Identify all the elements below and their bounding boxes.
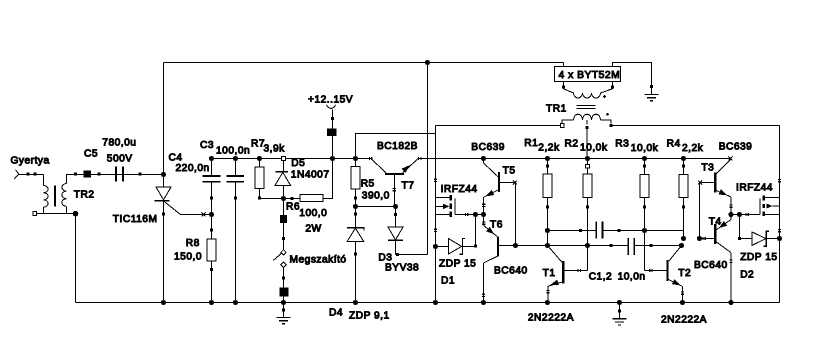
pin square G3 xyxy=(618,309,621,312)
wire BYT52M left top stub xyxy=(563,63,565,68)
svg-text:C4: C4 xyxy=(169,152,183,163)
wire R8 bottom lead xyxy=(211,261,213,302)
wire BYT52M right top stub and run to ground xyxy=(613,63,652,95)
spark plug electrode xyxy=(14,170,43,179)
wire R1 top lead xyxy=(547,159,549,175)
ground G3 (bottom middle) xyxy=(613,319,627,325)
node D5 anode / breaker branch xyxy=(281,196,286,201)
node D4 / ground rail xyxy=(353,300,358,305)
node C3 / ground rail xyxy=(233,300,238,305)
node D1 branch xyxy=(473,212,478,217)
label BC640 right xyxy=(694,260,728,271)
transistor T3 BC639 xyxy=(700,160,732,215)
wire C3 top lead xyxy=(235,159,237,176)
node T5/T6 emitter xyxy=(481,212,486,217)
label IRFZ44 right xyxy=(736,182,773,193)
pin mark T3 base xyxy=(698,181,702,185)
svg-text:D2: D2 xyxy=(740,270,754,281)
node C4 top xyxy=(209,156,214,161)
node R8 / ground rail xyxy=(209,300,214,305)
label C3 xyxy=(200,140,214,151)
svg-text:500V: 500V xyxy=(107,153,133,164)
svg-text:2N2222A: 2N2222A xyxy=(528,312,574,323)
label R7 xyxy=(251,138,265,149)
label BC182B xyxy=(377,141,418,152)
pin mark T5 base xyxy=(513,181,517,185)
pin square breaker xyxy=(282,237,285,240)
pin square R4 top xyxy=(682,165,685,168)
wire R1 bottom lead xyxy=(547,198,549,246)
pin square breaker lower xyxy=(282,277,285,280)
wire T5 base lead xyxy=(500,182,515,184)
node C3 top xyxy=(233,156,238,161)
core TR1 xyxy=(576,106,595,109)
label 10,0k r2 xyxy=(580,143,608,154)
wire TR2 primary bottom xyxy=(66,207,68,214)
resistor R4 xyxy=(679,175,688,198)
wire common column (x=427) xyxy=(427,63,429,255)
inductor TR1 secondary winding xyxy=(562,114,611,124)
wire top rail (common) xyxy=(164,62,564,64)
svg-text:T2: T2 xyxy=(678,268,691,279)
node R3 bottom / wire A / T2 base xyxy=(642,228,647,233)
wire ground rail (bottom) xyxy=(76,302,780,304)
svg-text:BC640: BC640 xyxy=(494,265,528,276)
pin square wire B a xyxy=(610,244,613,247)
label 100,0n xyxy=(216,145,250,156)
pin hash on right spine lower xyxy=(778,230,781,232)
svg-text:R2: R2 xyxy=(565,138,579,149)
label 2,2k r1 xyxy=(538,143,560,154)
core TR2 xyxy=(54,186,56,207)
svg-text:2W: 2W xyxy=(305,223,321,234)
svg-text:D4: D4 xyxy=(329,308,343,319)
diode D3 BYV38 xyxy=(388,227,403,255)
supply terminal arc xyxy=(326,105,336,109)
label R1 xyxy=(524,138,538,149)
label D3 xyxy=(378,252,392,263)
node R2 top / TR1 tap xyxy=(585,156,590,161)
label D1 xyxy=(441,276,455,287)
svg-text:390,0: 390,0 xyxy=(362,190,390,201)
node R4 top xyxy=(681,156,686,161)
thyristor TIC116M xyxy=(155,175,171,303)
svg-text:D5: D5 xyxy=(291,158,305,169)
pin open square R2 top xyxy=(586,164,590,168)
capacitor C3 xyxy=(227,176,245,182)
pin mark gate xyxy=(202,213,206,217)
node breaker / ground rail xyxy=(281,300,286,305)
wire breaker branch upper xyxy=(283,199,285,251)
wire D3 cathode to common column xyxy=(396,254,428,256)
node supply junction xyxy=(330,156,335,161)
wire spark gap to TR2 secondary top xyxy=(43,175,45,186)
svg-text:BC639: BC639 xyxy=(719,141,753,152)
svg-text:10,0k: 10,0k xyxy=(631,143,659,154)
node thyristor gate / C4 / R8 xyxy=(209,212,214,217)
svg-text:BC640: BC640 xyxy=(694,260,728,271)
resistor R6 xyxy=(300,194,323,201)
svg-text:C3: C3 xyxy=(200,140,214,151)
wire ground stem G2 xyxy=(282,303,285,318)
transistor T7 BC182B xyxy=(372,159,418,206)
label T4 xyxy=(709,217,722,228)
svg-text:R8: R8 xyxy=(186,238,200,249)
wire T7 emitter to common column xyxy=(417,158,427,160)
svg-text:2N2222A: 2N2222A xyxy=(661,314,707,325)
transistor IRFZ44 right xyxy=(760,196,780,216)
pin hash T4 base xyxy=(703,237,705,240)
pin square C5 wire c xyxy=(139,173,142,176)
label TR2 xyxy=(74,190,95,201)
wire C3 bottom lead xyxy=(235,183,237,303)
pin hash T2 base xyxy=(650,269,652,272)
wire R3 bottom lead xyxy=(644,198,646,271)
pin open square TR2 bottom-left terminal xyxy=(33,212,37,216)
label R3 xyxy=(615,138,629,149)
label R6 xyxy=(286,202,300,213)
wire R5 top lead xyxy=(355,159,357,167)
label T5 xyxy=(503,165,516,176)
pin square R8 top xyxy=(210,229,213,232)
wire TR2 bottom to ground rail corner xyxy=(44,214,76,303)
label T3 xyxy=(701,163,714,174)
label TR1 xyxy=(546,103,567,114)
svg-text:T7: T7 xyxy=(402,181,415,192)
svg-text:+12..15V: +12..15V xyxy=(308,94,353,105)
pin square R2 bottom xyxy=(586,205,589,208)
wire R5 to T7 base node xyxy=(356,206,396,208)
svg-text:T5: T5 xyxy=(503,165,516,176)
pin square R4 bottom xyxy=(682,205,685,208)
node T1 emitter / ground rail xyxy=(545,300,550,305)
svg-text:100,0n: 100,0n xyxy=(216,145,250,156)
pin hash right gate xyxy=(746,213,748,216)
zener diode D4 ZDP 9,1 xyxy=(347,228,364,303)
label 220,0n xyxy=(176,163,210,174)
pin hash T2 emitter xyxy=(681,292,684,294)
pin hash T6 collector xyxy=(482,294,485,296)
label R2 xyxy=(565,138,579,149)
capacitor C1 (upper) xyxy=(596,221,602,238)
svg-text:T4: T4 xyxy=(709,217,722,228)
svg-text:2,2k: 2,2k xyxy=(682,143,704,154)
wire R7/D5/R6 row xyxy=(260,159,333,199)
pin hash on left spine upper xyxy=(434,179,437,181)
transistor IRFZ44 left xyxy=(436,195,455,217)
pin square D2 left xyxy=(738,237,741,240)
label 100,0 xyxy=(299,208,327,219)
label BC639 left xyxy=(471,142,505,153)
label Gyertya xyxy=(11,155,50,166)
label 780,0u xyxy=(102,137,136,148)
wire left MOSFET spine (drain column) xyxy=(435,126,437,303)
svg-text:BYV38: BYV38 xyxy=(385,262,419,273)
svg-text:150,0: 150,0 xyxy=(174,251,202,262)
wire D4 lead xyxy=(355,207,357,228)
wire BYT52M bottom stub left xyxy=(563,81,565,89)
transistor T5 BC639 xyxy=(484,159,500,215)
pin square R6 left xyxy=(291,197,294,200)
inductor TR1 primary winding xyxy=(564,89,613,98)
label BC639 right xyxy=(719,141,753,152)
wire driver rail xyxy=(417,158,731,160)
node D1 anode / left spine xyxy=(433,244,438,249)
wire B lower coupling row xyxy=(499,245,682,247)
node R2 bottom / T1 base / wire B xyxy=(585,243,590,248)
node T7 base / D3 xyxy=(393,204,398,209)
node R5 top / riser junction xyxy=(353,156,358,161)
wire R4 top lead xyxy=(683,159,685,175)
label 150,0 xyxy=(174,251,202,262)
transistor T6 BC640 xyxy=(484,215,498,303)
label R8 xyxy=(186,238,200,249)
terminal pad breaker lower (black square) xyxy=(279,287,288,296)
svg-text:R1: R1 xyxy=(524,138,538,149)
label BYV38 xyxy=(385,262,419,273)
label C5 xyxy=(84,148,98,159)
label IRFZ44 left xyxy=(441,184,478,195)
pin hash on left spine lower xyxy=(434,229,437,231)
pin square wire A b xyxy=(617,229,620,232)
pin hash T3 emitter xyxy=(729,205,732,207)
pin square on supply lead xyxy=(331,117,334,120)
wire C4 top lead xyxy=(211,159,213,176)
label C4 xyxy=(169,152,183,163)
pin hash BC182B collector xyxy=(369,157,371,160)
transistor T1 2N2222A xyxy=(548,246,588,303)
terminal pad breaker upper (black square) xyxy=(280,215,287,223)
pin square D4 top xyxy=(354,213,357,216)
pin open square TR1 left terminal xyxy=(560,124,564,128)
zener diode D1 ZDP 15 xyxy=(436,238,476,254)
label 2W xyxy=(305,223,321,234)
pin square C5 wire a xyxy=(74,173,77,176)
wire T3/T4 base column xyxy=(699,183,701,239)
pin square D1 right xyxy=(474,245,477,248)
svg-text:TIC116M: TIC116M xyxy=(113,214,158,225)
wire left MOSFET gate to driver xyxy=(455,213,484,216)
wire breaker branch lower xyxy=(283,267,285,303)
svg-text:780,0u: 780,0u xyxy=(102,137,136,148)
svg-text:1N4007: 1N4007 xyxy=(291,170,330,181)
label 2N2222A left xyxy=(528,312,574,323)
wire TR1 right terminal to right MOSFET spine xyxy=(611,125,779,127)
resistor R2 xyxy=(583,174,592,197)
pin mark T3 collector xyxy=(729,157,733,161)
pin square C5 wire b xyxy=(97,173,100,176)
svg-text:220,0n: 220,0n xyxy=(176,163,210,174)
svg-text:3,9k: 3,9k xyxy=(264,144,286,155)
label D2 xyxy=(740,270,754,281)
inductor TR2 secondary (HV) winding xyxy=(44,186,49,208)
node R4 bottom / T3-T4 base row xyxy=(681,236,686,241)
pin square R1 bottom xyxy=(546,205,549,208)
svg-text:TR1: TR1 xyxy=(546,103,567,114)
capacitor C2 (lower) xyxy=(628,238,634,255)
label 10,0n xyxy=(618,271,646,282)
svg-text:R6: R6 xyxy=(286,202,300,213)
resistor R5 xyxy=(351,167,360,189)
capacitor C5 xyxy=(116,166,123,181)
svg-text:T6: T6 xyxy=(490,219,503,230)
svg-text:R5: R5 xyxy=(361,179,375,190)
label 2,2k r4 xyxy=(682,143,704,154)
label T1 xyxy=(543,268,556,279)
wire R7 top lead xyxy=(259,159,261,167)
svg-text:BC182B: BC182B xyxy=(377,141,418,152)
resistor R1 xyxy=(543,174,552,197)
node T4 collector / ground rail xyxy=(728,300,733,305)
wire T6 base lead xyxy=(499,245,516,247)
pin hash T5 emitter xyxy=(482,204,485,206)
wire TR2 primary top to C5 wire xyxy=(67,175,75,184)
wire R3 top lead xyxy=(644,159,646,175)
wire TR1 left terminal to left MOSFET spine xyxy=(436,125,561,127)
pin square R8 bottom xyxy=(210,268,213,271)
switch Megszakito xyxy=(273,250,286,268)
pin open square D5 cathode on rail xyxy=(282,157,286,161)
node T5 collector xyxy=(481,156,486,161)
label 10,0k r3 xyxy=(631,143,659,154)
node R3 top xyxy=(642,156,647,161)
wire D2 branch down xyxy=(739,215,741,239)
svg-text:10,0n: 10,0n xyxy=(618,271,646,282)
pin square D3 top xyxy=(394,213,397,216)
label 3,9k xyxy=(264,144,286,155)
svg-text:C5: C5 xyxy=(84,148,98,159)
node R1 bottom / wire A xyxy=(545,228,550,233)
svg-text:10,0k: 10,0k xyxy=(580,143,608,154)
node T5/T6 base / wire B xyxy=(513,243,518,248)
pin hash T6 emitter xyxy=(482,222,485,224)
ground G2 (bottom left) xyxy=(277,318,291,324)
svg-text:100,0: 100,0 xyxy=(299,208,327,219)
wire ground stem G3 xyxy=(619,303,621,319)
node R1 top xyxy=(545,156,550,161)
inductor TR2 primary winding xyxy=(62,184,67,207)
terminal pad near C5 (black square) xyxy=(84,170,91,177)
resistor R3 xyxy=(640,175,649,198)
label ZDP 15 left xyxy=(439,259,476,270)
pin square BYT52M bottom right xyxy=(611,85,614,88)
label BC640 left xyxy=(494,265,528,276)
label ZDP 9,1 xyxy=(349,311,390,322)
pin hash T7 emitter xyxy=(419,157,421,160)
wire gate node down to R8 xyxy=(211,215,213,239)
svg-text:IRFZ44: IRFZ44 xyxy=(736,182,773,193)
node R7 top xyxy=(257,156,262,161)
zener diode D2 ZDP 15 xyxy=(740,231,780,246)
wire BYT52M bottom stub right xyxy=(612,81,614,89)
pin hash T1 base xyxy=(578,269,580,272)
resistor R7 xyxy=(255,167,264,189)
wire C4 bottom lead xyxy=(211,183,213,215)
label T6 xyxy=(490,219,503,230)
svg-text:ZDP 15: ZDP 15 xyxy=(439,259,476,270)
svg-text:4 x BYT52M: 4 x BYT52M xyxy=(559,70,621,81)
label Megszakito xyxy=(290,255,347,266)
wire R4 bottom lead xyxy=(683,198,685,239)
transistor T4 BC640 xyxy=(700,215,732,303)
svg-text:D1: D1 xyxy=(441,276,455,287)
pin square R1 top xyxy=(546,164,549,167)
pin hash T7 base xyxy=(393,188,396,190)
node T2 emitter / ground rail xyxy=(680,300,685,305)
svg-text:BC639: BC639 xyxy=(471,142,505,153)
svg-text:TR2: TR2 xyxy=(74,190,95,201)
wire R2 bottom lead xyxy=(587,198,589,246)
node T3/T4 emitter xyxy=(728,212,733,217)
pin square on ground stem xyxy=(650,85,653,88)
svg-text:IRFZ44: IRFZ44 xyxy=(441,184,478,195)
pin square BYT52M bottom left xyxy=(562,85,565,88)
label D4 xyxy=(329,308,343,319)
svg-text:Gyertya: Gyertya xyxy=(11,155,50,166)
label C1,2 xyxy=(589,271,613,282)
wire D3 lead xyxy=(395,207,397,227)
wire D1 branch down xyxy=(475,215,477,247)
label TIC116M xyxy=(113,214,158,225)
node TR2 bottom junction xyxy=(73,211,79,217)
ground G1 (top right) xyxy=(645,95,659,101)
pin square R5 bottom xyxy=(354,197,357,200)
svg-text:T1: T1 xyxy=(543,268,556,279)
label 2N2222A right xyxy=(661,314,707,325)
terminal pad +12V (black square) xyxy=(327,128,337,136)
wire C5 node run xyxy=(74,174,164,176)
pin hash T4 collector xyxy=(729,260,732,262)
resistor R8 xyxy=(207,239,216,261)
wire +12V rail (left rail y=158) xyxy=(212,158,372,160)
polarity dot TR1 primary xyxy=(603,95,606,98)
label +12..15V xyxy=(308,94,353,105)
svg-text:T3: T3 xyxy=(701,163,714,174)
wire +12V rail riser to BC182B feed xyxy=(356,134,436,159)
label 1N4007 xyxy=(291,170,330,181)
pin square R7 bottom xyxy=(258,197,261,200)
diode D5 1N4007 xyxy=(275,160,291,198)
wire R2 top lead xyxy=(587,159,589,175)
node R1 link / wire B xyxy=(545,243,550,248)
wire right MOSFET spine (drain column) xyxy=(779,126,781,303)
node R5 / D4 xyxy=(353,204,358,209)
node thyristor cathode / ground rail xyxy=(161,300,166,305)
capacitor C4 xyxy=(203,176,221,182)
node mid ground xyxy=(617,300,622,305)
label D5 xyxy=(291,158,305,169)
wire gate drive right xyxy=(731,214,760,216)
wire TR2 secondary bottom to open terminal xyxy=(37,207,44,214)
wire A upper coupling row xyxy=(548,230,684,232)
node T3/T4 base row xyxy=(697,236,702,241)
pin square D4 bottom xyxy=(354,253,357,256)
wire T5/T6 base column xyxy=(515,183,517,246)
pin square spark gap right xyxy=(34,173,37,176)
svg-text:C1,2: C1,2 xyxy=(589,271,613,282)
node T2 collector / wire B xyxy=(679,243,684,248)
wire TR1 center tap to rail xyxy=(586,127,588,159)
pin square R3 top xyxy=(643,165,646,168)
label T7 xyxy=(402,181,415,192)
pin hash T1 emitter xyxy=(546,290,549,292)
pin square TR1 right terminal xyxy=(610,124,613,127)
wire thyristor gate xyxy=(164,201,212,215)
pin square spark gap left xyxy=(26,173,29,176)
label ZDP 15 right xyxy=(740,252,777,263)
polarity dot TR1 secondary xyxy=(606,113,609,116)
node D2 branch xyxy=(737,212,742,217)
